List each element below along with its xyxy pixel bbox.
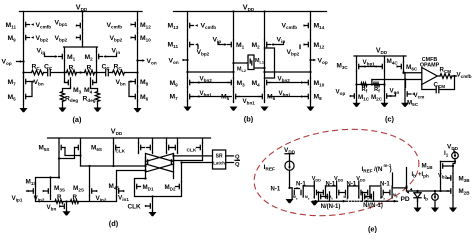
capacitor CCM xyxy=(436,86,439,92)
resistor Rdeg left xyxy=(60,92,64,102)
wire xyxy=(45,54,57,57)
svg-text:(d): (d) xyxy=(109,219,119,228)
transistor Mf3 xyxy=(362,192,364,201)
wire xyxy=(195,43,198,46)
wire xyxy=(264,12,266,103)
svg-text:Q: Q xyxy=(235,155,240,161)
ground Rdeg left xyxy=(59,108,67,112)
wire dotted continuation xyxy=(350,200,363,202)
svg-text:RC: RC xyxy=(114,64,123,72)
svg-text:Vcmfb: Vcmfb xyxy=(36,22,52,30)
transistor Meb3 xyxy=(391,188,393,197)
wire xyxy=(440,171,442,191)
svg-text:Vbp2: Vbp2 xyxy=(36,35,49,43)
wire xyxy=(184,59,188,61)
wire xyxy=(131,36,134,39)
op-amp CMFB xyxy=(422,68,438,85)
transistor Vbp1 PMOS tail (a) xyxy=(82,21,84,30)
transistor M3 xyxy=(70,78,72,87)
wire xyxy=(76,24,79,27)
wire xyxy=(76,36,79,39)
ground stage1 xyxy=(311,201,319,205)
wire xyxy=(152,197,154,202)
wire node line xyxy=(407,190,449,192)
transistor MP1 (d) xyxy=(138,143,140,152)
transistor Mea1 xyxy=(336,188,338,197)
svg-text:M5C: M5C xyxy=(407,100,419,108)
current source IREF xyxy=(285,161,294,170)
transistor M1B xyxy=(440,161,442,170)
wire xyxy=(437,75,440,77)
svg-text:Vbn: Vbn xyxy=(47,204,57,212)
svg-text:IREF: IREF xyxy=(362,166,373,174)
svg-text:ML2: ML2 xyxy=(237,66,246,73)
svg-text:Vcmfb: Vcmfb xyxy=(457,72,472,80)
wire xyxy=(441,159,456,173)
svg-text:VDD: VDD xyxy=(243,3,255,13)
wire xyxy=(422,85,435,90)
svg-text:M3: M3 xyxy=(237,80,246,88)
wire xyxy=(290,170,293,188)
svg-text:M14: M14 xyxy=(314,23,325,31)
svg-text:N-1: N-1 xyxy=(271,187,281,193)
svg-text:CCM: CCM xyxy=(434,82,446,90)
wire M2 drain bypass xyxy=(265,48,275,78)
svg-text:Von: Von xyxy=(147,58,157,66)
svg-text:/(N: /(N xyxy=(374,166,383,173)
transistor Meb2 xyxy=(369,188,371,197)
svg-text:VDD: VDD xyxy=(312,176,321,183)
transistor M5C xyxy=(404,89,406,98)
wire tail line xyxy=(64,47,98,52)
wire xyxy=(404,72,422,74)
transistor Vbp2 PMOS tail (a) xyxy=(82,33,84,42)
transistor M1C xyxy=(356,91,358,100)
wire xyxy=(404,99,406,103)
transistor ML1 xyxy=(247,57,249,65)
wire xyxy=(17,61,24,63)
transistor Mf2 xyxy=(329,192,331,201)
svg-text:Rf: Rf xyxy=(374,87,380,94)
wire xyxy=(174,152,203,160)
transistor M8b xyxy=(310,92,312,101)
transistor M1 xyxy=(64,52,66,61)
ground Ib xyxy=(431,208,439,212)
svg-text:MD1: MD1 xyxy=(143,184,154,192)
svg-text:VDD: VDD xyxy=(356,176,365,183)
svg-text:Vin1: Vin1 xyxy=(118,195,129,203)
wire xyxy=(59,205,62,208)
wire xyxy=(354,55,406,57)
resistor RC left xyxy=(32,70,44,75)
transistor M2C xyxy=(384,91,386,100)
resistor R left xyxy=(67,70,77,75)
svg-text:N/(N-1): N/(N-1) xyxy=(363,203,383,209)
wire xyxy=(357,84,385,86)
svg-text:Ib: Ib xyxy=(424,195,429,202)
svg-text:M9: M9 xyxy=(8,35,17,43)
svg-text:Vbn: Vbn xyxy=(116,79,126,87)
dashed ellipse (e) xyxy=(248,119,424,225)
svg-text:R: R xyxy=(87,65,92,72)
wire xyxy=(404,73,406,90)
svg-text:I1: I1 xyxy=(444,150,449,158)
svg-text:Von: Von xyxy=(169,58,179,66)
wire xyxy=(66,210,68,212)
wire xyxy=(65,61,97,72)
wire xyxy=(350,95,353,98)
wire xyxy=(187,12,189,107)
wire xyxy=(304,43,307,46)
wire xyxy=(59,138,203,143)
svg-text:(c): (c) xyxy=(385,114,395,123)
wire xyxy=(357,101,385,103)
ground Vbn tail xyxy=(63,211,71,215)
svg-text:(b): (b) xyxy=(244,114,254,123)
wire xyxy=(405,186,408,189)
svg-text:M11: M11 xyxy=(6,22,17,30)
wire xyxy=(357,56,404,91)
svg-text:CLK: CLK xyxy=(128,203,142,210)
wire latch cross 2 xyxy=(146,164,174,172)
wire xyxy=(23,12,25,109)
wire xyxy=(89,166,91,186)
wire xyxy=(447,165,453,167)
svg-text:M3B: M3B xyxy=(459,176,471,184)
wire xyxy=(452,183,454,187)
transistor MD2 xyxy=(181,182,183,191)
svg-text:RCM: RCM xyxy=(440,67,452,75)
resistor RCM xyxy=(440,74,452,79)
svg-text:M1S: M1S xyxy=(26,179,37,187)
transistor M6C xyxy=(403,62,405,71)
wire xyxy=(311,59,315,61)
transistor M1S xyxy=(35,186,37,195)
wire xyxy=(337,186,348,193)
capacitor CC left xyxy=(48,69,51,75)
svg-text:M12: M12 xyxy=(314,42,325,50)
transistor Me1 xyxy=(302,188,304,197)
transistor M6 xyxy=(137,92,139,101)
svg-text:Ma: Ma xyxy=(293,195,298,201)
ground (a) left xyxy=(20,108,28,112)
wire xyxy=(321,196,328,198)
svg-text:M7: M7 xyxy=(8,79,17,87)
svg-text:Ma: Ma xyxy=(381,195,386,201)
svg-text:Vbp2: Vbp2 xyxy=(55,35,68,43)
svg-text:M3S: M3S xyxy=(54,185,65,193)
wire xyxy=(135,163,182,182)
transistor M11 xyxy=(23,20,25,29)
transistor M12b xyxy=(310,40,312,49)
wire M6 gate hook xyxy=(129,82,131,97)
ground M1C xyxy=(353,103,361,107)
wire xyxy=(292,186,303,199)
wire xyxy=(137,12,139,109)
svg-text:Vcmfb: Vcmfb xyxy=(282,23,298,31)
wire xyxy=(145,205,148,208)
svg-text:ML1: ML1 xyxy=(255,58,264,65)
svg-text:M9: M9 xyxy=(170,80,179,88)
resistor Rf left xyxy=(361,83,367,87)
wire xyxy=(359,66,382,68)
svg-text:M11: M11 xyxy=(168,42,179,50)
wire xyxy=(28,190,31,193)
svg-text:Q: Q xyxy=(235,162,240,168)
transistor M5S xyxy=(58,143,60,152)
wire xyxy=(174,156,213,163)
wire xyxy=(191,96,231,98)
wire SR out2 xyxy=(226,162,234,164)
wire xyxy=(113,152,115,166)
transistor M2B xyxy=(452,186,454,195)
transistor M6S xyxy=(80,143,82,152)
transistor Mf4 xyxy=(373,192,375,201)
svg-text:Vb2: Vb2 xyxy=(438,173,448,180)
wire bus row2 xyxy=(313,200,398,202)
wire xyxy=(336,181,338,188)
wire xyxy=(138,60,144,62)
ground CLK tail xyxy=(149,212,157,216)
transistor latch NMOS left xyxy=(145,157,147,166)
ground PD xyxy=(414,208,422,212)
svg-text:Vop: Vop xyxy=(336,89,346,97)
wire xyxy=(48,137,211,139)
transistor CLK PMOS left xyxy=(113,143,115,152)
transistor M5 xyxy=(23,92,25,101)
svg-text:Vcmfb: Vcmfb xyxy=(107,22,123,30)
svg-text:+Iph: +Iph xyxy=(418,172,429,179)
photodiode PD xyxy=(414,191,421,202)
wire keeper cross xyxy=(59,148,81,159)
svg-text:Mb: Mb xyxy=(365,195,370,201)
transistor Meb0 xyxy=(325,188,327,197)
svg-text:M12: M12 xyxy=(140,22,151,30)
wire xyxy=(95,190,98,193)
wire xyxy=(389,93,395,96)
wire xyxy=(31,36,34,39)
transistor ML2 xyxy=(253,59,255,67)
transistor M3B xyxy=(452,173,454,182)
wire xyxy=(337,196,348,199)
svg-text:RC: RC xyxy=(32,64,41,72)
svg-text:(e): (e) xyxy=(368,225,378,234)
transistor MP2 (d) xyxy=(152,143,154,152)
capacitor CC right xyxy=(106,69,109,75)
wire xyxy=(372,79,422,81)
svg-text:M4C: M4C xyxy=(387,58,399,66)
wire xyxy=(63,71,65,73)
svg-text:M10: M10 xyxy=(140,35,151,43)
wire SR out1 xyxy=(226,155,234,157)
transistor M10b xyxy=(310,78,312,87)
svg-text:VDD: VDD xyxy=(334,176,343,183)
svg-text:R: R xyxy=(73,194,78,201)
transistor M1 (b) xyxy=(233,40,235,49)
svg-text:IREF: IREF xyxy=(264,164,276,173)
photodiode arrows xyxy=(410,188,414,192)
wire xyxy=(412,93,415,96)
transistor M8 xyxy=(137,77,139,86)
ground (a) right xyxy=(134,108,142,112)
wire xyxy=(152,211,154,212)
transistor M4 (b) xyxy=(264,78,266,87)
svg-text:Ma: Ma xyxy=(305,195,310,201)
svg-text:Mb: Mb xyxy=(393,193,398,199)
transistor Vbn tail (d) xyxy=(66,202,68,211)
transistor MD1 xyxy=(134,182,136,191)
svg-text:PD: PD xyxy=(401,196,410,203)
svg-text:M5: M5 xyxy=(8,94,17,102)
svg-text:VDD: VDD xyxy=(111,127,123,137)
svg-text:CLK: CLK xyxy=(187,148,197,154)
svg-text:M4S: M4S xyxy=(109,183,120,191)
transistor M6 (b) xyxy=(264,92,266,101)
wire xyxy=(146,154,174,179)
wire xyxy=(406,168,408,187)
svg-text:OPAMP: OPAMP xyxy=(420,63,440,69)
svg-text:Vbp2: Vbp2 xyxy=(110,35,123,43)
wire xyxy=(238,96,261,98)
transistor M2S xyxy=(89,186,91,195)
wire xyxy=(234,63,265,68)
svg-text:M6C: M6C xyxy=(406,64,418,72)
transistor M4S xyxy=(116,186,118,195)
svg-text:CC: CC xyxy=(102,64,111,72)
transistor M3S xyxy=(50,186,52,195)
resistor Rdeg right xyxy=(95,92,99,102)
wire xyxy=(63,102,98,108)
transistor M2 xyxy=(96,52,98,61)
wire xyxy=(36,178,60,187)
wire xyxy=(43,190,46,193)
transistor M13 xyxy=(187,21,189,30)
SR latch box xyxy=(213,150,226,169)
svg-text:Rdeg: Rdeg xyxy=(83,96,96,104)
transistor M3 (b) xyxy=(233,78,235,87)
transistor MP3 (d) xyxy=(166,143,168,152)
svg-text:SR: SR xyxy=(216,153,223,159)
svg-text:Ib: Ib xyxy=(412,172,417,179)
transistor CLK tail xyxy=(152,201,154,210)
transistor M9 xyxy=(23,33,25,42)
svg-text:Vbn: Vbn xyxy=(34,79,44,87)
svg-text:M2: M2 xyxy=(85,54,94,62)
svg-text:M2S: M2S xyxy=(73,185,84,193)
svg-text:Vbn1: Vbn1 xyxy=(243,98,256,106)
wire xyxy=(233,12,235,103)
wire xyxy=(131,80,134,83)
wire xyxy=(195,24,198,27)
wire xyxy=(285,154,294,161)
transistor M5 (b) xyxy=(233,92,235,101)
ground (b) col4 xyxy=(307,107,315,111)
transistor MP4 (d) xyxy=(177,143,179,152)
svg-text:M13: M13 xyxy=(168,23,179,31)
svg-text:CLK: CLK xyxy=(116,148,126,153)
ground M5C xyxy=(401,103,409,107)
svg-text:M5S: M5S xyxy=(39,145,50,153)
svg-text:R: R xyxy=(69,65,74,72)
transistor Mea0 xyxy=(313,188,315,197)
svg-text:Von: Von xyxy=(390,87,400,95)
transistor M4C xyxy=(384,62,386,71)
svg-text:M6: M6 xyxy=(140,94,149,102)
wire xyxy=(63,87,98,91)
svg-text:M2B: M2B xyxy=(459,188,471,196)
wire xyxy=(440,76,457,90)
wire xyxy=(381,196,392,199)
transistor Mea3 xyxy=(380,188,382,197)
svg-text:Vip1: Vip1 xyxy=(12,195,23,203)
wire xyxy=(447,190,448,192)
wire xyxy=(359,186,370,193)
wire xyxy=(31,23,34,26)
svg-text:M7: M7 xyxy=(170,93,179,101)
svg-text:M10: M10 xyxy=(314,80,325,88)
wire xyxy=(81,165,146,167)
wire xyxy=(359,196,370,199)
wire xyxy=(365,196,372,198)
svg-text:M3C: M3C xyxy=(337,63,349,71)
wire xyxy=(313,181,315,188)
wire xyxy=(454,149,455,152)
wire xyxy=(20,11,143,13)
transistor Me0 xyxy=(291,188,293,197)
svg-text:M1C: M1C xyxy=(358,94,370,102)
wire xyxy=(105,54,117,57)
transistor Mf1 xyxy=(318,192,320,201)
svg-text:M3: M3 xyxy=(73,87,82,95)
wire xyxy=(65,73,97,83)
svg-text:): ) xyxy=(390,166,392,173)
svg-text:Latch: Latch xyxy=(213,160,225,165)
transistor Mea2 xyxy=(358,188,360,197)
transistor M12 xyxy=(137,20,139,29)
transistor M7 xyxy=(23,77,25,86)
wire xyxy=(295,187,300,190)
resistor R (d) right xyxy=(71,200,79,204)
wire xyxy=(131,23,134,26)
wire xyxy=(405,80,407,88)
ground (b) col3 xyxy=(261,107,269,111)
svg-text:M8: M8 xyxy=(314,93,323,101)
resistor R (d) left xyxy=(55,200,63,204)
wire xyxy=(59,152,81,177)
svg-text:M4: M4 xyxy=(252,80,261,88)
resistor RC right xyxy=(113,70,125,75)
wire xyxy=(310,12,312,107)
svg-text:Rdeg: Rdeg xyxy=(65,96,78,104)
wire xyxy=(82,12,84,48)
ground (b) col2 xyxy=(230,107,238,111)
transistor M7b xyxy=(187,92,189,101)
ground Me0 xyxy=(286,199,294,203)
ground M2B xyxy=(449,208,457,212)
transistor latch NMOS right xyxy=(173,157,175,166)
transistor M4 xyxy=(90,78,92,87)
current source I1 xyxy=(452,152,459,159)
wire M5 gate hook xyxy=(30,82,32,97)
current source Ib xyxy=(432,194,439,201)
svg-text:M1: M1 xyxy=(67,54,76,62)
svg-text:Vbp2: Vbp2 xyxy=(197,49,210,57)
wire xyxy=(66,201,68,203)
wire xyxy=(371,80,373,85)
svg-text:Rf: Rf xyxy=(362,87,368,94)
svg-text:M2: M2 xyxy=(252,42,261,50)
svg-text:M8: M8 xyxy=(140,79,149,87)
